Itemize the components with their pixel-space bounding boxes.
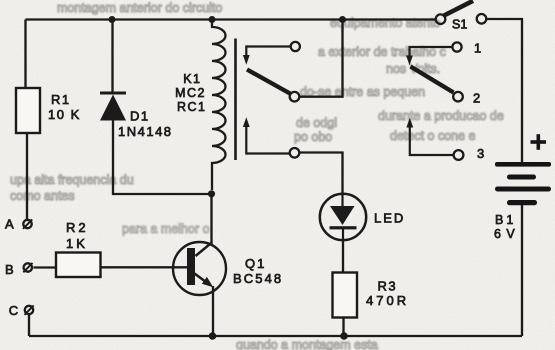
switch S1 blade (444, 1, 473, 16)
svg-text:MC2: MC2 (175, 86, 206, 100)
D1 triangle (100, 95, 126, 121)
relay core bar (234, 39, 237, 161)
relay common contact group 1 (290, 92, 300, 102)
emitter lead with arrow (195, 274, 209, 284)
node: junction top rail / R1-D1 (109, 16, 116, 23)
relay contact group 1: NC top contact (291, 42, 300, 51)
wire: coil node down to Q1 collector (210, 194, 212, 246)
wire: actuator to NO contact group 1 (246, 126, 289, 154)
svg-text:LED: LED (374, 211, 405, 226)
svg-text:S1: S1 (452, 18, 467, 32)
battery plate short 2 (507, 200, 537, 205)
svg-text:10 K: 10 K (48, 107, 81, 122)
svg-text:RC1: RC1 (177, 100, 207, 114)
wire: top rail (26, 18, 436, 20)
actuator arrow (down) (243, 55, 250, 65)
svg-text:detect o cone e: detect o cone e (390, 129, 476, 143)
switch S1 left contact (436, 14, 446, 24)
D1 cathode bar (100, 92, 126, 95)
resistor R2 (56, 253, 101, 278)
relay NO contact group 1 (290, 148, 300, 158)
svg-text:BC548: BC548 (233, 271, 283, 286)
contact 3 (454, 150, 464, 160)
svg-text:como antes: como antes (10, 189, 75, 203)
svg-text:R2: R2 (66, 220, 89, 235)
actuator arrow (down) group 2 (406, 56, 413, 66)
wire: D1 branch vertical top (111, 20, 113, 93)
wire: LED to R3 (342, 240, 344, 273)
terminal C (25, 306, 33, 314)
wire: contact 1 to actuator arrow (410, 47, 453, 57)
svg-text:quando a montagem esta: quando a montagem esta (236, 338, 378, 350)
svg-text:equipamento atento: equipamento atento (330, 16, 441, 30)
battery plate long 1 (495, 162, 551, 167)
svg-text:1N4148: 1N4148 (118, 124, 173, 139)
LED cathode lead (342, 229, 344, 240)
wire: R3 to bottom rail (342, 318, 344, 337)
resistor R1 (16, 88, 40, 133)
svg-text:A: A (5, 217, 14, 232)
relay blade group 2 (411, 67, 454, 93)
wire: R2 to Q1 base (101, 266, 188, 268)
plus sign (+ terminal) (531, 140, 547, 144)
svg-text:R1: R1 (51, 92, 71, 107)
terminal A (23, 220, 31, 228)
svg-text:upa alta frequencia du: upa alta frequencia du (10, 173, 134, 187)
LED circle (320, 194, 366, 240)
node: junction top rail / relay common (339, 16, 346, 23)
svg-text:6 V: 6 V (494, 227, 516, 241)
svg-text:B1: B1 (495, 213, 516, 227)
actuator arrow (up) group 1 (243, 117, 250, 127)
svg-text:1: 1 (474, 41, 481, 56)
battery plate short 1 (507, 175, 536, 180)
wire: battery minus down to bottom rail (521, 205, 523, 336)
resistor R3 (333, 273, 358, 318)
wire: terminal B to R2 (34, 266, 57, 268)
wire: R1 bottom to terminal A (26, 132, 28, 219)
contact 2 (453, 92, 463, 102)
relay blade group 1 (247, 70, 290, 94)
terminal B (24, 263, 32, 271)
node: junction top rail / coil (209, 16, 216, 23)
wire: left rail top (to R1) (24, 20, 26, 90)
switch S1 right contact (477, 14, 487, 24)
node: junction D1/coil/collector (208, 190, 215, 197)
relay contact group 2: contact 1 (452, 42, 461, 51)
wire: right rail down from top corner to battery (487, 19, 523, 162)
svg-text:R3: R3 (378, 279, 398, 294)
svg-text:D1: D1 (130, 109, 150, 124)
transistor Q1 (173, 242, 226, 295)
battery B1 (495, 134, 551, 205)
svg-text:3: 3 (477, 146, 484, 161)
wire: relay NO contact to LED (300, 153, 343, 195)
wire: bottom rail (29, 335, 522, 337)
svg-text:C: C (9, 303, 18, 318)
svg-text:para a melhor o: para a melhor o (122, 222, 210, 236)
actuator arrow (up) group 2 (406, 118, 413, 128)
LED anode lead (341, 195, 343, 207)
svg-text:montagem anterior do circui: montagem anterior do circuito (57, 1, 222, 15)
svg-text:B: B (5, 262, 14, 277)
diode D1 (100, 93, 126, 121)
Q1 base bar (187, 248, 195, 285)
svg-text:470R: 470R (366, 293, 409, 308)
svg-text:po obo: po obo (294, 130, 332, 144)
collector lead (196, 243, 212, 257)
wire: actuator to contact 3 (410, 127, 454, 156)
LED cathode bar (330, 226, 357, 229)
node: junction R3 / bottom rail (340, 332, 348, 340)
wire: Q1 emitter to bottom rail (212, 286, 214, 336)
wire: D1 bottom L to coil node (113, 121, 212, 195)
svg-text:Q1: Q1 (245, 256, 266, 271)
wire: terminal C to bottom rail (28, 315, 30, 336)
wire: top rail to relay common (LED column upper) (300, 20, 343, 97)
LED triangle (330, 206, 355, 225)
wire: NC contact to actuator arrow (246, 47, 290, 57)
svg-text:durante a producao de: durante a producao de (378, 109, 504, 123)
svg-text:1K: 1K (66, 236, 88, 251)
svg-text:K1: K1 (183, 72, 201, 86)
svg-text:de odgi: de odgi (296, 116, 337, 130)
node: junction emitter / bottom rail (209, 332, 217, 340)
battery plate long 2 (495, 187, 551, 192)
relay coil K1 (212, 20, 226, 191)
svg-text:2: 2 (473, 91, 480, 106)
